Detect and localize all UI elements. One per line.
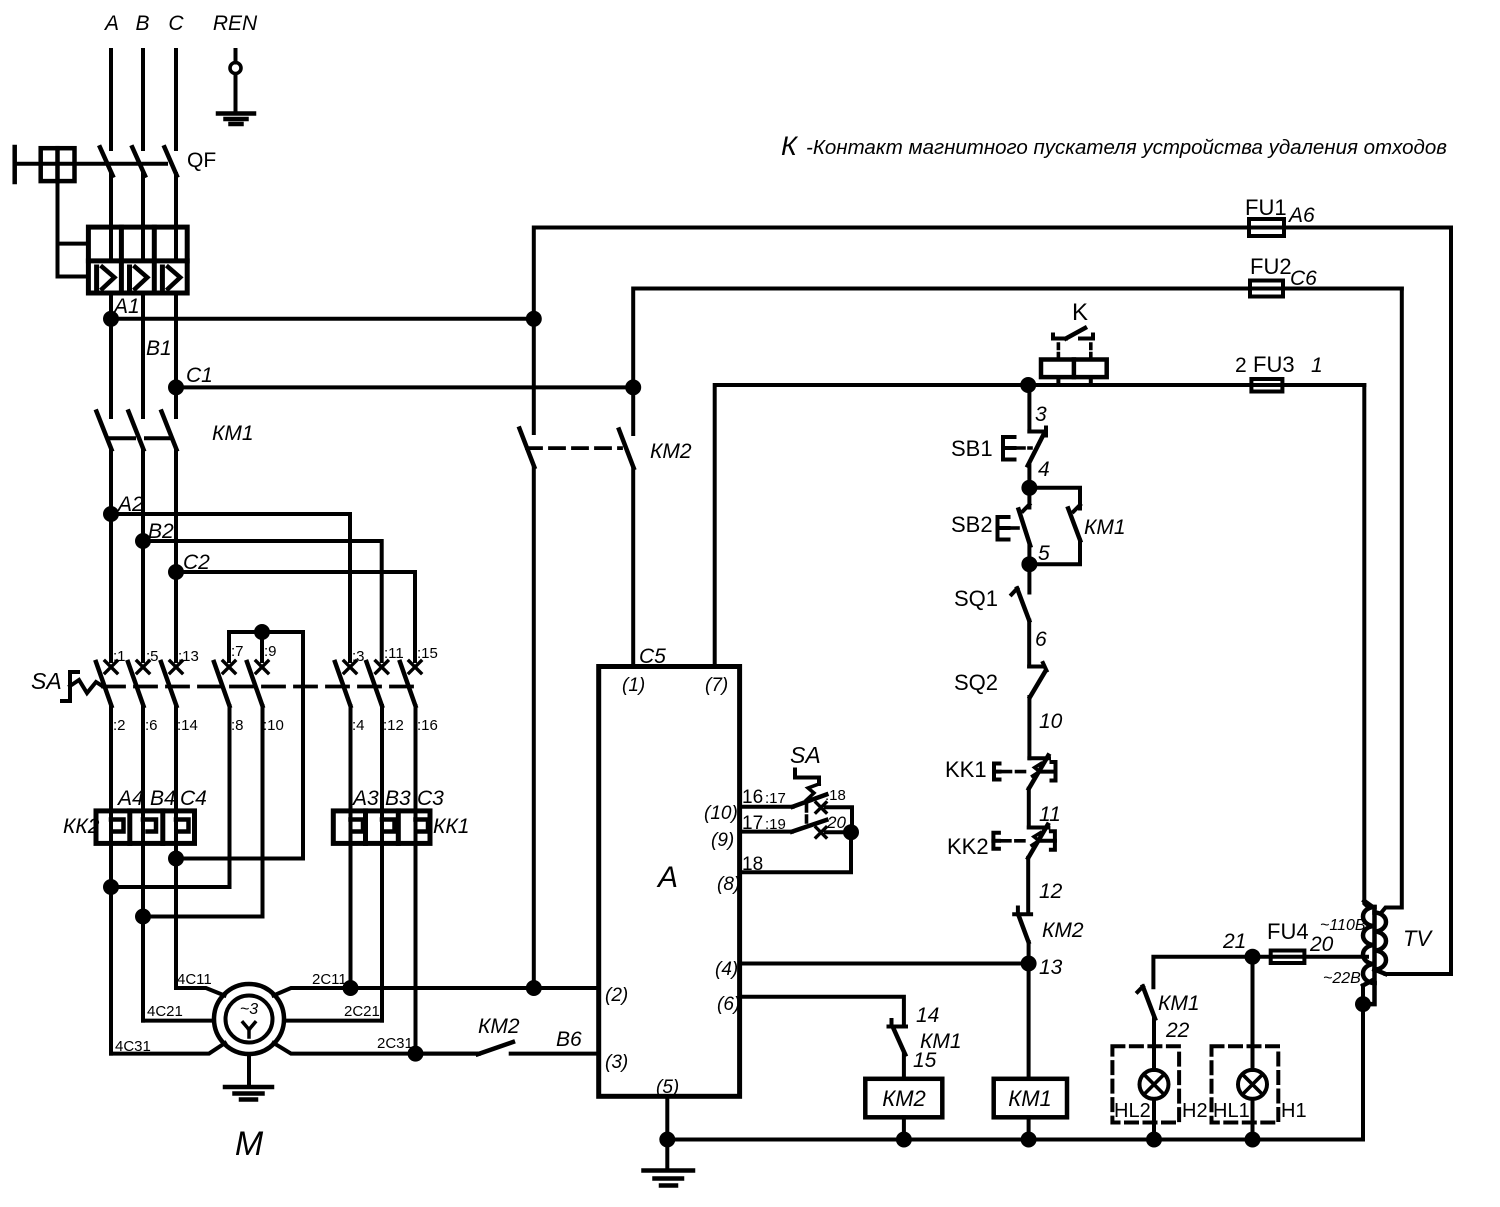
svg-text::1: :1 bbox=[113, 648, 126, 665]
node bus HL1 bbox=[1247, 1134, 1259, 1146]
wire 2C11 motor lead to node bbox=[274, 988, 351, 996]
svg-text:FU4: FU4 bbox=[1267, 919, 1309, 944]
contactor KM1 aux contact (lamp circuit, wire 22) bbox=[1138, 987, 1156, 1047]
ground (control circuit earth) bbox=[644, 1140, 694, 1186]
node C1 bbox=[170, 381, 633, 393]
wire KM2 left pole down to 2C11 bbox=[532, 467, 536, 988]
wire C2 down to SA contact 13 bbox=[174, 572, 178, 661]
svg-text:TV: TV bbox=[1403, 926, 1433, 951]
svg-text:(2): (2) bbox=[605, 985, 628, 1006]
svg-text:1: 1 bbox=[1311, 354, 1323, 377]
wire A6 feed from A1 riser to FU1 bbox=[534, 228, 1249, 314]
svg-text::17: :17 bbox=[765, 790, 786, 807]
node A1 riser junction bbox=[528, 313, 540, 325]
svg-text:C3: C3 bbox=[417, 787, 444, 810]
wire phase B release box to KM1 bbox=[141, 293, 145, 417]
svg-text:B3: B3 bbox=[385, 787, 411, 810]
circuit breaker QF (3-pole with trip bar and latch box) bbox=[15, 147, 177, 277]
node A2 bbox=[105, 508, 350, 661]
svg-text::19: :19 bbox=[765, 816, 786, 833]
wire C5 KM2 right pole down to unit A input 1 bbox=[631, 468, 635, 667]
thermal relay KK2 heater box bbox=[96, 811, 195, 844]
svg-text::14: :14 bbox=[177, 717, 198, 734]
pushbutton SB2 (start, NO) bbox=[998, 488, 1031, 564]
fuse FU1 bbox=[1245, 219, 1451, 236]
wire phase C QF to release box bbox=[174, 174, 178, 227]
node 4 bbox=[1023, 482, 1035, 494]
svg-text:20: 20 bbox=[1309, 933, 1334, 956]
unit A box bbox=[599, 667, 740, 1097]
svg-text:(5): (5) bbox=[656, 1077, 679, 1098]
svg-text:SA: SA bbox=[790, 742, 821, 768]
svg-text:КМ2: КМ2 bbox=[882, 1086, 926, 1111]
thermal relay contact KK2 bbox=[993, 825, 1055, 912]
svg-text:17: 17 bbox=[742, 813, 763, 834]
wire 3 from K junction down to SB1 bbox=[1027, 385, 1031, 432]
wire TV secondary bottom to bus bbox=[1361, 986, 1365, 1140]
wire B2 down to SA contact 5 bbox=[141, 541, 145, 661]
node C2 bbox=[170, 566, 415, 661]
svg-text:12: 12 bbox=[1039, 880, 1063, 903]
wire 4C31 motor lead bbox=[111, 1043, 225, 1054]
svg-text:6: 6 bbox=[1035, 628, 1047, 651]
wire bridge to SA contacts 7 and 9 bbox=[229, 632, 303, 661]
wire SA 2 down through KK2 heater bbox=[109, 706, 113, 887]
svg-text:B2: B2 bbox=[148, 520, 174, 543]
svg-text:(10): (10) bbox=[704, 803, 738, 824]
contactor KM2 main contacts (2-pole) bbox=[520, 429, 634, 469]
svg-text:A1: A1 bbox=[112, 295, 140, 318]
node below KK2 phase C bbox=[170, 853, 182, 989]
svg-text:A: A bbox=[103, 12, 119, 35]
node B2 bbox=[137, 535, 382, 661]
node junction phase B to wire 10 bbox=[137, 911, 263, 1021]
svg-text:KK2: KK2 bbox=[947, 834, 989, 859]
svg-text::10: :10 bbox=[263, 717, 284, 734]
svg-text:5: 5 bbox=[1038, 542, 1050, 565]
svg-text:К: К bbox=[781, 131, 799, 161]
thermal relay KK1 heater box bbox=[333, 811, 430, 844]
overcurrent release box of QF (3 elements) bbox=[88, 227, 187, 293]
node SA2 output bbox=[740, 826, 857, 872]
wire phase A release box to KM1 bbox=[109, 293, 113, 417]
svg-text:22: 22 bbox=[1165, 1019, 1190, 1042]
svg-text:FU1: FU1 bbox=[1245, 195, 1287, 220]
svg-text:КМ1: КМ1 bbox=[212, 422, 254, 445]
svg-text:REN: REN bbox=[213, 12, 258, 35]
svg-text:КМ1: КМ1 bbox=[1158, 992, 1200, 1015]
svg-text:B6: B6 bbox=[556, 1028, 582, 1051]
wire SA 8 down bbox=[228, 706, 232, 887]
node 2C11 to KM2 pole bbox=[528, 982, 599, 994]
node at SA contact 9 top bbox=[256, 626, 268, 638]
fuse FU2 bbox=[1246, 281, 1402, 297]
wire phase C release box to KM1 bbox=[174, 293, 178, 417]
motor M (3~ with wye) bbox=[214, 984, 284, 1054]
wire K contact bus to FU3 bbox=[1028, 383, 1251, 387]
wire node 13 down to coil KM1 bbox=[1027, 964, 1031, 1079]
svg-text:(9): (9) bbox=[711, 830, 734, 851]
wire 2C31 motor lead bbox=[274, 1043, 416, 1054]
svg-text:A2: A2 bbox=[116, 493, 144, 516]
bottom bus wire bbox=[667, 1138, 1362, 1142]
svg-text:A4: A4 bbox=[116, 787, 144, 810]
wire 4C21 motor lead bbox=[143, 1019, 214, 1023]
svg-text:(3): (3) bbox=[605, 1052, 628, 1073]
node 13 bbox=[1023, 958, 1035, 970]
svg-text:2: 2 bbox=[1235, 354, 1247, 377]
svg-text:FU2: FU2 bbox=[1250, 254, 1292, 279]
wire SA 10 down bbox=[261, 706, 265, 917]
svg-text::4: :4 bbox=[352, 717, 365, 734]
thermal relay contact KK1 bbox=[994, 756, 1056, 828]
svg-text:SB1: SB1 bbox=[951, 436, 993, 461]
svg-text:HL1: HL1 bbox=[1213, 1100, 1250, 1122]
wire C1 riser down to KM2 right pole bbox=[631, 387, 635, 434]
contact cross marks on SA poles bbox=[105, 661, 421, 673]
wire unit A output 4 to node 13 bbox=[740, 962, 1029, 966]
lamp HL1 (in dashed enclosure H1) bbox=[1212, 957, 1279, 1140]
svg-text:КМ2: КМ2 bbox=[650, 440, 692, 463]
wire 2C21 motor lead bbox=[284, 1019, 382, 1023]
node bus KM1 coil bbox=[1023, 1134, 1035, 1146]
contact K (waste removal starter contact) with terminal block bbox=[1041, 328, 1107, 385]
wire SA 14 down through KK2 heater bbox=[174, 706, 178, 859]
coil KM2 bbox=[865, 1079, 942, 1140]
svg-text:C6: C6 bbox=[1290, 267, 1317, 290]
svg-text:A: A bbox=[656, 861, 678, 894]
svg-text:4: 4 bbox=[1038, 458, 1050, 481]
switch SA (cam switch, left group 8 poles) bbox=[62, 662, 418, 706]
svg-text::9: :9 bbox=[264, 643, 277, 660]
wire SA 12 down through KK1 heater bbox=[380, 706, 384, 1021]
svg-text:КМ2: КМ2 bbox=[1042, 919, 1084, 942]
wire A2 down to SA contact 1 bbox=[109, 514, 113, 661]
wire B6 with contactor KM2 aux contact bbox=[416, 1042, 599, 1054]
svg-text:КМ2: КМ2 bbox=[478, 1015, 520, 1038]
svg-text:A6: A6 bbox=[1287, 204, 1315, 227]
svg-text:SQ2: SQ2 bbox=[954, 670, 998, 695]
svg-text:3: 3 bbox=[1035, 403, 1047, 426]
wire A1 riser down to KM2 left pole bbox=[532, 319, 536, 433]
lamp HL2 (in dashed enclosure H2) bbox=[1112, 1046, 1179, 1139]
wire 1 down to TV primary top bbox=[1364, 385, 1369, 908]
node 21 bbox=[1247, 951, 1259, 963]
svg-text:C1: C1 bbox=[186, 364, 213, 387]
svg-text::15: :15 bbox=[417, 645, 438, 662]
wire SA 16 down through KK1 heater bbox=[414, 706, 418, 1054]
ground (motor earth) bbox=[225, 1054, 272, 1100]
wire unit A output 6 to KM1 interlock contact bbox=[740, 997, 904, 1026]
svg-text::6: :6 bbox=[145, 717, 158, 734]
node bus KM2 coil bbox=[898, 1134, 910, 1146]
svg-text:4C31: 4C31 bbox=[115, 1038, 151, 1055]
svg-text:~3: ~3 bbox=[240, 1001, 258, 1018]
svg-text:B1: B1 bbox=[146, 337, 172, 360]
wire C6 feed from C1 riser to FU2 bbox=[633, 289, 1250, 382]
switch SA (second group, contacts 17-18 and 19-20) bbox=[740, 770, 852, 838]
svg-text:C: C bbox=[168, 12, 184, 35]
svg-text::7: :7 bbox=[231, 643, 244, 660]
wire bridge right side down to node below KK2 bbox=[176, 632, 303, 859]
node B (phase input) bbox=[141, 50, 145, 149]
fuse FU4 bbox=[1253, 951, 1368, 964]
svg-text:4C11: 4C11 bbox=[177, 971, 212, 988]
node ground bus left bbox=[661, 1134, 673, 1146]
svg-text:KK1: KK1 bbox=[945, 757, 987, 782]
svg-text:15: 15 bbox=[913, 1049, 937, 1072]
node 5 bbox=[1023, 558, 1035, 570]
ground (REN earth) bbox=[218, 114, 254, 125]
fuse FU3 bbox=[1247, 379, 1364, 392]
svg-text:-Контакт магнитного пускателя: -Контакт магнитного пускателя устройства… bbox=[806, 136, 1447, 159]
svg-text::13: :13 bbox=[178, 648, 199, 665]
contactor KM1 aux contact (seal-in, parallel to SB2) bbox=[1029, 488, 1080, 564]
svg-text:(6): (6) bbox=[717, 994, 740, 1015]
svg-text:КК2: КК2 bbox=[63, 815, 100, 838]
svg-text:14: 14 bbox=[916, 1004, 939, 1027]
node TV secondary bottom bbox=[1357, 998, 1369, 1010]
svg-text:~110В: ~110В bbox=[1320, 917, 1366, 934]
wire SA 4 down through KK1 heater bbox=[349, 706, 353, 988]
wire SA 6 down through KK2 heater bbox=[141, 706, 145, 917]
svg-text:H1: H1 bbox=[1281, 1100, 1307, 1122]
wire unit A output 5 to ground bus bbox=[665, 1096, 669, 1139]
svg-text:FU3: FU3 bbox=[1253, 352, 1295, 377]
svg-text:B4: B4 bbox=[150, 787, 176, 810]
limit switch SQ2 bbox=[1029, 663, 1046, 758]
svg-text:2C11: 2C11 bbox=[312, 971, 347, 988]
svg-text:H2: H2 bbox=[1182, 1100, 1208, 1122]
node K contact junction bbox=[1022, 379, 1034, 391]
svg-text:QF: QF bbox=[187, 149, 216, 172]
wire 4C11 motor lead bbox=[176, 988, 225, 996]
svg-text::5: :5 bbox=[146, 648, 159, 665]
svg-text:(1): (1) bbox=[622, 675, 645, 696]
svg-text:18: 18 bbox=[742, 854, 763, 875]
node A1 bbox=[105, 313, 534, 325]
svg-text:11: 11 bbox=[1039, 803, 1061, 826]
coil KM1 bbox=[994, 1079, 1067, 1140]
node 2C31 bbox=[410, 1048, 480, 1060]
node C1 riser junction bbox=[627, 381, 639, 393]
svg-text:2C31: 2C31 bbox=[377, 1035, 413, 1052]
svg-text:10: 10 bbox=[1039, 710, 1063, 733]
svg-text:(7): (7) bbox=[705, 675, 728, 696]
svg-text:(4): (4) bbox=[715, 959, 738, 980]
transformer TV bbox=[1363, 901, 1386, 1004]
svg-text:C5: C5 bbox=[639, 645, 666, 668]
svg-text:A3: A3 bbox=[351, 787, 379, 810]
wire C6 right riser down to TV bbox=[1381, 289, 1402, 914]
node bus HL2 bbox=[1148, 1134, 1160, 1146]
limit switch SQ1 bbox=[1012, 564, 1030, 666]
svg-text::2: :2 bbox=[113, 717, 126, 734]
contactor KM1 aux contact NC (wire 14-15) bbox=[889, 1020, 907, 1079]
svg-text::11: :11 bbox=[384, 645, 404, 662]
wire phase B KM1 to B2 bbox=[141, 450, 145, 542]
svg-text:КМ1: КМ1 bbox=[1084, 516, 1126, 539]
svg-text:КМ1: КМ1 bbox=[1008, 1086, 1052, 1111]
wire phase A KM1 to A2 bbox=[109, 450, 113, 515]
svg-text:20: 20 bbox=[826, 813, 846, 832]
svg-text:HL2: HL2 bbox=[1114, 1100, 1151, 1122]
node 2C11 bbox=[345, 982, 534, 994]
svg-text:SB2: SB2 bbox=[951, 512, 993, 537]
svg-text:(8): (8) bbox=[717, 874, 740, 895]
svg-text:C2: C2 bbox=[183, 551, 210, 574]
svg-text::3: :3 bbox=[352, 648, 365, 665]
svg-text::12: :12 bbox=[383, 717, 404, 734]
svg-text:C4: C4 bbox=[180, 787, 207, 810]
wire phase B QF to release box bbox=[141, 174, 145, 227]
svg-text:КК1: КК1 bbox=[433, 815, 469, 838]
svg-text:K: K bbox=[1072, 299, 1088, 326]
wire phase C KM1 to C2 bbox=[174, 450, 178, 573]
svg-text::8: :8 bbox=[231, 717, 244, 734]
node C (phase input) bbox=[174, 50, 178, 149]
wire phase A QF to release box bbox=[109, 174, 113, 227]
wire A6 right riser down to TV bbox=[1386, 228, 1452, 975]
pushbutton SB1 (stop, NC) bbox=[1003, 428, 1046, 488]
node A (phase input) bbox=[109, 50, 113, 149]
svg-text:16: 16 bbox=[742, 787, 763, 808]
node REN (neutral input) bbox=[230, 50, 241, 112]
contactor KM1 main contacts (3-pole) bbox=[97, 412, 177, 450]
svg-text:2C21: 2C21 bbox=[344, 1003, 380, 1020]
svg-text:~22В: ~22В bbox=[1323, 970, 1361, 987]
svg-text::16: :16 bbox=[417, 717, 438, 734]
svg-text:SQ1: SQ1 bbox=[954, 586, 998, 611]
wire 21 horizontal bbox=[1153, 957, 1252, 988]
svg-text::18: :18 bbox=[825, 787, 846, 804]
wire from unit A output 7 up and right to K contact bbox=[715, 385, 1028, 667]
svg-text:21: 21 bbox=[1222, 930, 1246, 953]
svg-text:B: B bbox=[135, 12, 149, 35]
svg-text:4C21: 4C21 bbox=[147, 1003, 183, 1020]
svg-text:M: M bbox=[235, 1125, 264, 1163]
svg-text:SA: SA bbox=[31, 668, 62, 694]
contactor KM2 aux contact (interlock, wire 12-13) bbox=[1014, 908, 1031, 964]
svg-text:13: 13 bbox=[1039, 956, 1063, 979]
node junction phase A to wire 8 bbox=[105, 881, 230, 1054]
